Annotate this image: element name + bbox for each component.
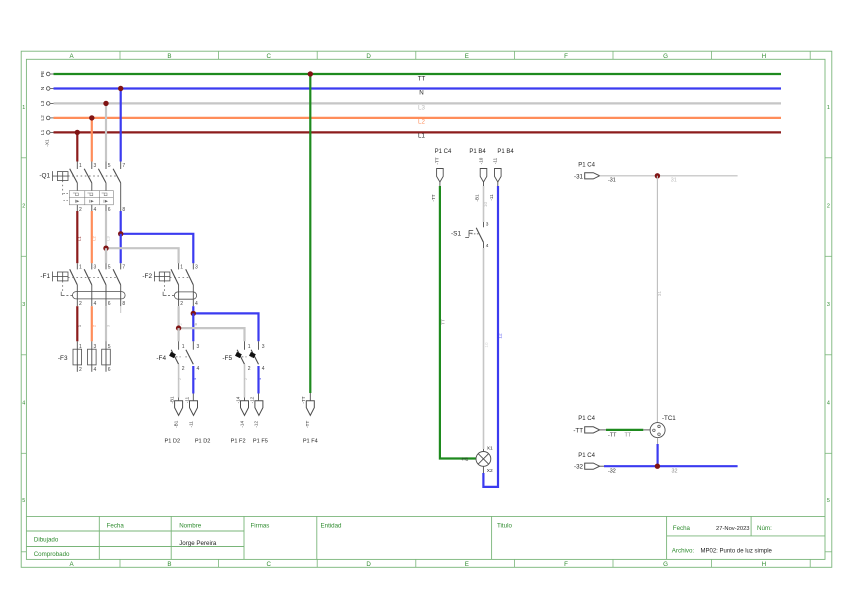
svg-text:6: 6 <box>108 367 111 373</box>
svg-text:4: 4 <box>94 301 97 307</box>
wire L2 drop to Q1 <box>91 118 93 162</box>
svg-text:3: 3 <box>22 302 25 308</box>
wire N to lamp <box>497 182 499 186</box>
wire TT drop to P1F4 arrow <box>309 74 311 393</box>
junction TT <box>308 71 313 76</box>
fuse group F3 <box>58 341 111 373</box>
svg-text:-11: -11 <box>188 421 193 428</box>
svg-text:P1 F2: P1 F2 <box>231 439 246 445</box>
svg-text:F: F <box>564 53 568 60</box>
svg-text:P1 B4: P1 B4 <box>497 149 514 155</box>
bus N terminal -X1 <box>46 87 50 91</box>
wire bus L2 <box>50 117 53 119</box>
svg-text:2: 2 <box>79 207 82 213</box>
wire N to F4 <box>192 313 194 341</box>
title block entries <box>179 526 772 555</box>
svg-text:L1: L1 <box>77 236 82 241</box>
svg-text:-TT: -TT <box>573 427 583 434</box>
svg-text:-TC1: -TC1 <box>662 415 676 422</box>
svg-text:-31: -31 <box>608 177 616 183</box>
svg-text:-14: -14 <box>239 421 244 428</box>
svg-text:G: G <box>663 561 668 568</box>
title block headings <box>34 522 772 558</box>
junction N <box>118 86 123 91</box>
wire N F4 to arrow <box>192 366 194 394</box>
wire bus L1 <box>50 131 53 133</box>
svg-text:D: D <box>366 53 371 60</box>
svg-text:-B1: -B1 <box>173 420 178 428</box>
wire 32 <box>600 465 604 467</box>
bus PE terminal -X1 <box>46 72 50 76</box>
svg-text:PE: PE <box>40 71 46 77</box>
svg-text:L3: L3 <box>40 100 46 106</box>
svg-text:4: 4 <box>94 367 97 373</box>
bus name labels <box>418 76 426 140</box>
svg-text:-32: -32 <box>608 468 616 474</box>
svg-text:3: 3 <box>827 302 830 308</box>
frame row numbers left and right <box>22 105 830 504</box>
svg-text:Jorge Pereira: Jorge Pereira <box>179 540 217 547</box>
switch S1 <box>451 221 489 249</box>
bus L2 terminal -X1 <box>46 116 50 120</box>
svg-text:L2: L2 <box>40 115 46 121</box>
stub N below F1 <box>120 306 122 313</box>
breaker F5 <box>222 341 264 372</box>
wire N F2 to junction <box>192 306 194 313</box>
svg-text:Archivo:: Archivo: <box>672 548 695 555</box>
svg-text:F: F <box>564 561 568 568</box>
svg-text:P1 F4: P1 F4 <box>303 439 318 445</box>
wire N branch to F2 <box>121 234 194 263</box>
svg-text:E: E <box>465 53 469 60</box>
svg-text:-X1: -X1 <box>44 139 50 147</box>
svg-text:P1 D2: P1 D2 <box>195 439 211 445</box>
junction L3 branch <box>103 246 108 251</box>
svg-text:31: 31 <box>671 177 677 183</box>
svg-text:Fecha: Fecha <box>107 522 125 529</box>
circuit breaker Q1 <box>39 162 125 213</box>
wire S1 to lamp <box>483 242 485 248</box>
svg-text:2: 2 <box>79 367 82 373</box>
svg-text:-B1: -B1 <box>169 396 174 404</box>
svg-text:MP02: Punto de luz simple: MP02: Punto de luz simple <box>701 549 773 555</box>
svg-text:-TT: -TT <box>301 396 306 403</box>
wire N F5 to arrow <box>257 366 259 394</box>
svg-text:1: 1 <box>248 344 251 350</box>
page reference arrow P1 F2 <box>241 401 249 416</box>
svg-text:6: 6 <box>108 207 111 213</box>
svg-text:E: E <box>465 561 469 568</box>
wire TT to TC1 <box>600 429 606 431</box>
svg-text:5: 5 <box>827 498 830 504</box>
svg-text:10: 10 <box>483 202 488 208</box>
svg-text:P1 C4: P1 C4 <box>578 416 595 422</box>
wire L1 drop to Q1 <box>76 132 78 161</box>
svg-text:L1: L1 <box>418 133 425 140</box>
svg-text:5: 5 <box>22 498 25 504</box>
svg-text:Nombre: Nombre <box>179 522 202 529</box>
wire 31 <box>600 175 738 177</box>
svg-text:C: C <box>266 53 271 60</box>
svg-text:TT: TT <box>440 319 445 325</box>
title block grid <box>26 516 825 559</box>
page reference arrow P1 F4 <box>306 401 314 416</box>
svg-text:1: 1 <box>182 344 185 350</box>
svg-text:5: 5 <box>108 265 111 271</box>
svg-text:2: 2 <box>79 301 82 307</box>
wire L F2 to junction <box>178 306 180 328</box>
wire L branch to F5 <box>179 328 245 341</box>
wire bus N <box>50 88 53 90</box>
svg-text:8: 8 <box>122 301 125 307</box>
svg-text:7: 7 <box>122 265 125 271</box>
svg-text:-11: -11 <box>489 194 494 201</box>
wire bus L3 <box>50 102 53 104</box>
svg-text:Dibujado: Dibujado <box>34 536 59 543</box>
svg-text:4: 4 <box>827 401 830 407</box>
svg-text:4: 4 <box>94 207 97 213</box>
svg-text:1: 1 <box>79 163 82 169</box>
svg-text:-Q1: -Q1 <box>39 173 50 180</box>
svg-text:P1 C4: P1 C4 <box>578 162 595 168</box>
junction 31 <box>655 173 660 178</box>
svg-text:2: 2 <box>22 204 25 210</box>
wire 31 drop to TC1 <box>656 176 658 423</box>
bus L3 terminal -X1 <box>46 102 50 106</box>
junction L F2 <box>176 325 181 330</box>
svg-text:P1 F5: P1 F5 <box>253 439 268 445</box>
junction 32 <box>655 464 660 469</box>
drawing frame inner border <box>26 59 825 559</box>
wire N drop to Q1 <box>120 89 122 162</box>
svg-text:3: 3 <box>94 265 97 271</box>
svg-text:-TT: -TT <box>305 421 310 428</box>
wire to switch S1 <box>483 182 485 186</box>
svg-text:27-Nov-2023: 27-Nov-2023 <box>716 526 750 532</box>
wire bus PE <box>50 73 53 75</box>
wire N TC1 to 32 <box>657 438 659 444</box>
svg-text:P1 D2: P1 D2 <box>165 439 181 445</box>
svg-text:-11: -11 <box>184 396 189 403</box>
svg-text:3: 3 <box>94 344 97 350</box>
svg-text:3: 3 <box>195 265 198 271</box>
wire L3 Q1 to F1 <box>105 211 107 263</box>
svg-text:1: 1 <box>79 344 82 350</box>
wire L3 to F1 pole5 <box>105 248 107 263</box>
wire L3 drop to Q1 <box>105 103 107 161</box>
wire L to F4 <box>178 328 180 341</box>
junction N F2 <box>191 311 196 316</box>
RCD F2 <box>142 263 198 307</box>
page reference arrow P1 F5 <box>255 401 263 416</box>
svg-text:1: 1 <box>827 105 830 111</box>
svg-text:7: 7 <box>122 163 125 169</box>
page reference arrow P1 D2 <box>175 401 183 416</box>
svg-text:-32: -32 <box>574 464 584 471</box>
svg-text:-F5: -F5 <box>222 355 232 362</box>
svg-text:31: 31 <box>657 291 662 297</box>
svg-text:5: 5 <box>108 163 111 169</box>
svg-text:10: 10 <box>484 342 489 348</box>
svg-text:L1: L1 <box>40 129 46 135</box>
svg-text:2: 2 <box>180 301 183 307</box>
svg-text:P1 C4: P1 C4 <box>435 149 452 155</box>
svg-text:3: 3 <box>197 344 200 350</box>
svg-text:L3: L3 <box>106 236 111 241</box>
svg-text:4: 4 <box>197 366 200 372</box>
page reference arrow P1 D2 <box>190 401 198 416</box>
svg-text:Núm:: Núm: <box>757 525 772 532</box>
svg-text:-F1: -F1 <box>40 273 50 280</box>
svg-text:2: 2 <box>248 366 251 372</box>
svg-text:-12: -12 <box>250 396 255 403</box>
svg-text:3: 3 <box>486 221 489 227</box>
wire L2 Q1 to F1 <box>91 211 93 263</box>
wire N to F1 pole7 <box>120 234 122 263</box>
wire L3 branch to F2 <box>106 248 179 263</box>
svg-text:N: N <box>40 86 46 90</box>
wire N Q1 to junction <box>120 211 122 234</box>
svg-text:2: 2 <box>827 204 830 210</box>
svg-text:D: D <box>366 561 371 568</box>
svg-text:-12: -12 <box>254 421 259 428</box>
svg-text:5: 5 <box>108 344 111 350</box>
svg-text:-TT: -TT <box>608 432 617 438</box>
svg-text:L2: L2 <box>91 236 96 241</box>
svg-text:L2: L2 <box>418 119 425 126</box>
svg-text:-F4: -F4 <box>156 355 166 362</box>
wire TT to lamp <box>439 182 441 186</box>
svg-text:H: H <box>762 561 766 568</box>
wire L3 F1 to F3 <box>105 306 107 341</box>
wire L1 Q1 to F1 <box>76 211 78 263</box>
svg-text:4: 4 <box>22 401 25 407</box>
svg-text:-10: -10 <box>478 157 483 164</box>
svg-text:6: 6 <box>108 301 111 307</box>
svg-text:3: 3 <box>262 344 265 350</box>
svg-text:B: B <box>167 561 171 568</box>
svg-text:32: 32 <box>672 468 678 474</box>
svg-text:-31: -31 <box>574 173 584 180</box>
svg-text:Titulo: Titulo <box>497 522 512 529</box>
svg-text:C: C <box>266 561 271 568</box>
svg-text:2: 2 <box>182 366 185 372</box>
svg-text:G: G <box>663 53 668 60</box>
wire L2 F1 to F3 <box>91 306 93 341</box>
svg-text:-TT: -TT <box>431 194 436 201</box>
svg-text:L3: L3 <box>418 104 425 111</box>
svg-text:3: 3 <box>94 163 97 169</box>
svg-text:4: 4 <box>262 366 265 372</box>
svg-text:P1 C4: P1 C4 <box>578 453 595 459</box>
svg-text:H: H <box>762 53 766 60</box>
RCD F1 <box>40 263 125 307</box>
svg-text:Comprobado: Comprobado <box>34 551 70 558</box>
wire L F5 to arrow <box>244 364 246 397</box>
svg-text:Fecha: Fecha <box>673 525 691 532</box>
svg-text:-S1: -S1 <box>451 231 461 238</box>
svg-text:X2: X2 <box>487 468 493 474</box>
junction N branch <box>118 231 123 236</box>
breaker F4 <box>156 341 199 372</box>
svg-text:1: 1 <box>180 265 183 271</box>
wire L1 F1 to F3 <box>76 306 78 341</box>
svg-text:-11: -11 <box>493 157 498 164</box>
svg-text:-14: -14 <box>235 396 240 403</box>
frame column letters top and bottom <box>70 53 767 568</box>
svg-text:4: 4 <box>486 243 489 249</box>
svg-text:12: 12 <box>498 333 503 339</box>
lamp H1 <box>476 446 493 474</box>
svg-text:-F3: -F3 <box>58 355 68 362</box>
svg-text:-F2: -F2 <box>142 273 152 280</box>
svg-text:-B1: -B1 <box>475 194 480 202</box>
svg-text:TT: TT <box>625 432 632 438</box>
wire N branch to F5 <box>193 313 258 341</box>
junction L2 <box>89 115 94 120</box>
svg-text:TT: TT <box>418 76 426 83</box>
svg-text:8: 8 <box>122 207 125 213</box>
svg-text:Entidad: Entidad <box>321 522 343 529</box>
svg-text:-H1: -H1 <box>461 456 469 462</box>
svg-text:P1 B4: P1 B4 <box>469 149 486 155</box>
svg-text:4: 4 <box>195 301 198 307</box>
junction box TC1 <box>650 415 676 437</box>
junction L3 <box>103 101 108 106</box>
svg-text:N: N <box>419 89 423 96</box>
svg-text:Firmas: Firmas <box>251 522 270 529</box>
svg-text:-TT: -TT <box>434 157 439 164</box>
junction L1 <box>75 130 80 135</box>
svg-text:1: 1 <box>79 265 82 271</box>
bus L1 terminal -X1 <box>46 131 50 135</box>
svg-text:1: 1 <box>22 105 25 111</box>
svg-text:B: B <box>167 53 171 60</box>
wire L F4 to arrow <box>178 364 180 397</box>
svg-text:X1: X1 <box>487 446 493 452</box>
